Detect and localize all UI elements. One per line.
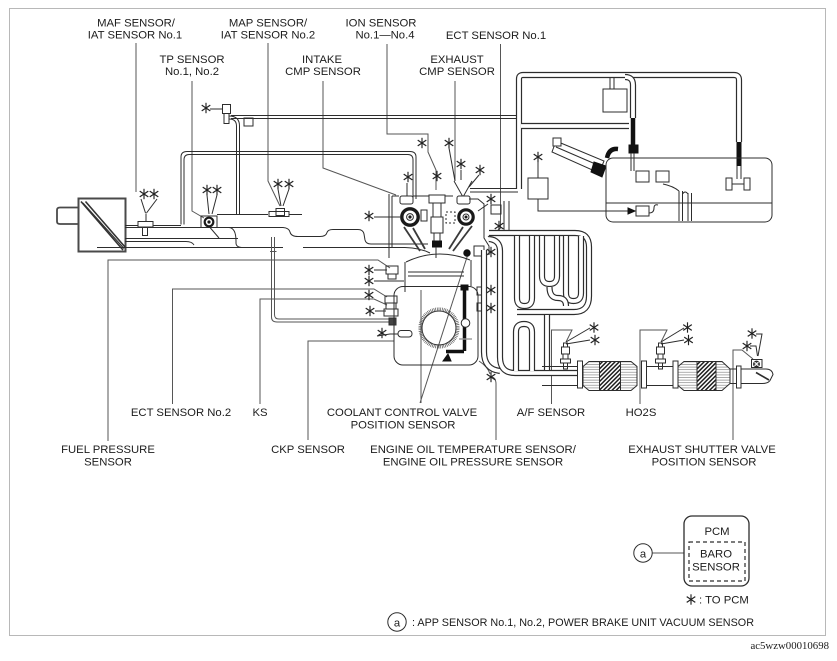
svg-text:COOLANT CONTROL VALVE: COOLANT CONTROL VALVE <box>327 407 478 419</box>
svg-text:a: a <box>394 618 401 630</box>
svg-text:SENSOR: SENSOR <box>692 562 740 574</box>
svg-text:ECT SENSOR No.2: ECT SENSOR No.2 <box>131 407 231 419</box>
svg-text:POSITION SENSOR: POSITION SENSOR <box>351 420 456 432</box>
svg-text:ac5wzw00010698: ac5wzw00010698 <box>750 640 829 652</box>
svg-text:: TO PCM: : TO PCM <box>699 595 749 607</box>
svg-text:POSITION SENSOR: POSITION SENSOR <box>652 457 757 469</box>
svg-text:IAT SENSOR No.1: IAT SENSOR No.1 <box>88 30 182 42</box>
svg-text:ECT SENSOR No.1: ECT SENSOR No.1 <box>446 30 546 42</box>
svg-text:No.1—No.4: No.1—No.4 <box>355 30 414 42</box>
svg-text:MAF SENSOR/: MAF SENSOR/ <box>97 18 176 30</box>
svg-text:ENGINE OIL PRESSURE SENSOR: ENGINE OIL PRESSURE SENSOR <box>383 457 563 469</box>
svg-text:SENSOR: SENSOR <box>84 457 132 469</box>
svg-text:: APP SENSOR No.1, No.2, POWER: : APP SENSOR No.1, No.2, POWER BRAKE UNI… <box>412 617 754 629</box>
svg-text:IAT SENSOR No.2: IAT SENSOR No.2 <box>221 30 315 42</box>
svg-text:CKP SENSOR: CKP SENSOR <box>271 444 345 456</box>
svg-text:EXHAUST SHUTTER VALVE: EXHAUST SHUTTER VALVE <box>628 444 776 456</box>
svg-text:KS: KS <box>252 407 268 419</box>
svg-text:MAP SENSOR/: MAP SENSOR/ <box>229 18 308 30</box>
svg-text:PCM: PCM <box>704 526 729 538</box>
svg-text:BARO: BARO <box>700 549 732 561</box>
svg-text:FUEL PRESSURE: FUEL PRESSURE <box>61 444 155 456</box>
svg-text:TP SENSOR: TP SENSOR <box>159 54 224 66</box>
svg-text:EXHAUST: EXHAUST <box>430 54 483 66</box>
svg-text:INTAKE: INTAKE <box>302 54 342 66</box>
svg-text:No.1, No.2: No.1, No.2 <box>165 66 219 78</box>
svg-text:ION SENSOR: ION SENSOR <box>346 18 417 30</box>
svg-text:ENGINE OIL TEMPERATURE SENSOR/: ENGINE OIL TEMPERATURE SENSOR/ <box>370 444 577 456</box>
svg-text:A/F SENSOR: A/F SENSOR <box>517 407 585 419</box>
svg-text:CMP SENSOR: CMP SENSOR <box>419 66 495 78</box>
svg-text:a: a <box>640 549 647 561</box>
svg-text:HO2S: HO2S <box>626 407 657 419</box>
svg-text:CMP SENSOR: CMP SENSOR <box>285 66 361 78</box>
